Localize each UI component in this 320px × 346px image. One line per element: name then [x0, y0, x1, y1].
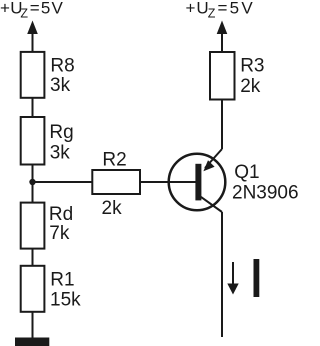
wire R1-ground: [32, 312, 34, 338]
current bar I: [254, 259, 260, 297]
svg-text:R8: R8: [50, 56, 74, 77]
current arrow shaft: [232, 262, 234, 284]
wire R8-Rg: [32, 98, 34, 117]
svg-text:2k: 2k: [240, 76, 261, 97]
junction node dot: [29, 179, 35, 185]
current arrowhead: [227, 284, 238, 295]
svg-text:R1: R1: [50, 270, 74, 291]
svg-text:3k: 3k: [50, 143, 71, 164]
resistor Rg: [21, 117, 45, 165]
svg-text:15k: 15k: [50, 290, 81, 311]
svg-text:Q1: Q1: [234, 162, 259, 183]
resistor R2: [92, 170, 140, 194]
svg-text:R3: R3: [240, 56, 264, 77]
transistor Q1 circle: [169, 154, 226, 211]
collector wire: [221, 212, 223, 337]
wire Rd-R1: [32, 249, 34, 266]
svg-text:R2: R2: [102, 150, 126, 171]
emitter arrowhead: [203, 160, 214, 171]
svg-text:+UZ=5V: +UZ=5V: [186, 0, 255, 21]
wire junction-R2: [33, 181, 93, 183]
ground: [15, 338, 49, 346]
svg-text:7k: 7k: [49, 223, 70, 244]
svg-text:Rg: Rg: [49, 122, 73, 143]
supply arrow (left): [27, 21, 38, 53]
svg-text:2k: 2k: [102, 198, 123, 219]
resistor R3: [210, 52, 235, 100]
svg-text:+UZ=5V: +UZ=5V: [0, 0, 64, 21]
collector diagonal: [201, 197, 222, 212]
emitter diagonal: [205, 149, 222, 168]
wire R2-base: [140, 181, 196, 183]
supply arrow (right): [217, 21, 228, 53]
wire R3-emitter: [221, 100, 223, 150]
svg-text:2N3906: 2N3906: [232, 183, 299, 204]
wire Rg-junction-Rd: [32, 165, 34, 203]
svg-text:3k: 3k: [50, 75, 71, 96]
resistor Rd: [21, 203, 45, 249]
resistor R8: [21, 52, 45, 98]
resistor R1: [21, 266, 45, 312]
svg-text:Rd: Rd: [49, 204, 73, 225]
base bar: [195, 164, 201, 201]
